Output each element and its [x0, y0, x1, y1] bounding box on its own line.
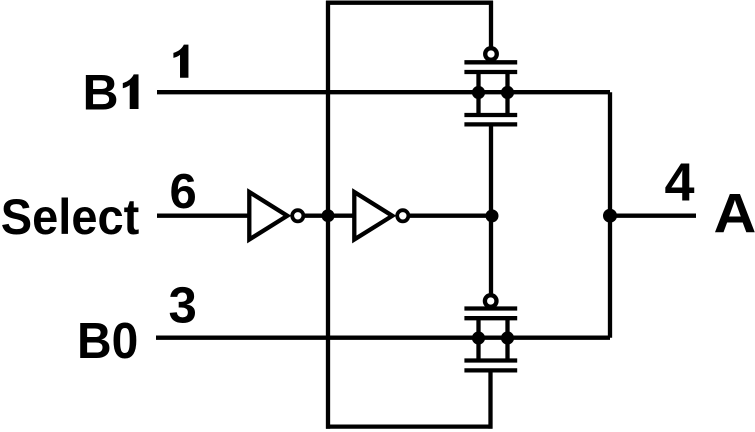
- transmission gate TG1 top channel bar: [464, 70, 517, 74]
- junction dot output node A: [603, 209, 617, 223]
- wire TG2 bottom gate stub: [488, 370, 492, 428]
- label Select: [1, 190, 139, 246]
- svg-text:A: A: [714, 183, 755, 245]
- pin 1: [173, 45, 188, 78]
- transmission gate TG2 bottom gate bar: [464, 368, 517, 372]
- transmission gate TG1 left channel lead: [476, 70, 480, 117]
- label A: [714, 183, 755, 245]
- transmission gate TG1 bottom gate bar: [464, 122, 517, 126]
- junction dot TG1 right: [501, 86, 514, 99]
- wire bottom bus horizontal: [326, 424, 493, 428]
- wire right bus vertical: [608, 92, 612, 338]
- junction dot TG2 right: [501, 331, 514, 344]
- wire TG center gate bus vertical: [489, 124, 493, 293]
- wire TG1 top gate stub: [489, 1, 493, 47]
- transmission gate TG2 top gate bar: [464, 306, 517, 310]
- junction dot TG1 left: [472, 86, 485, 99]
- wire top bus horizontal: [326, 1, 493, 5]
- inverter U2 triangle: [354, 192, 392, 240]
- transmission gate TG2 PMOS bubble: [485, 295, 497, 307]
- label B1 digit 1: [123, 74, 139, 109]
- wire inverter U1 to U2: [304, 214, 353, 218]
- transmission gate TG2 top channel bar: [464, 316, 517, 320]
- svg-text:3: 3: [169, 277, 197, 334]
- transmission gate TG2 right channel lead: [505, 316, 509, 363]
- transmission gate TG1 bottom channel bar: [464, 113, 517, 117]
- wire output A horizontal: [610, 214, 696, 218]
- inverter U2 bubble: [397, 210, 408, 221]
- transmission gate TG2 left channel lead: [476, 316, 480, 363]
- inverter U1 bubble: [292, 210, 303, 221]
- transmission gate TG1 PMOS bubble: [485, 48, 497, 60]
- svg-text:B: B: [83, 65, 119, 121]
- svg-text:Select: Select: [1, 190, 139, 246]
- svg-text:4: 4: [665, 152, 695, 212]
- transmission gate TG1 right channel lead: [505, 70, 509, 117]
- junction dot TG2 left: [472, 331, 485, 344]
- junction dot gate bus: [486, 209, 499, 222]
- svg-text:B0: B0: [77, 313, 138, 370]
- junction dot select bus: [322, 209, 335, 222]
- inverter U1 triangle: [249, 192, 287, 240]
- wire Select input: [157, 214, 249, 218]
- wire B1 horizontal: [157, 90, 610, 94]
- label B0: [77, 313, 138, 370]
- transmission gate TG2 bottom channel bar: [464, 358, 517, 362]
- svg-text:6: 6: [170, 165, 197, 219]
- wire left bus vertical: [326, 1, 330, 429]
- transmission gate TG1 top gate bar: [464, 60, 517, 64]
- wire inverter U2 to gate bus: [409, 214, 493, 218]
- wire B0 horizontal: [156, 336, 610, 340]
